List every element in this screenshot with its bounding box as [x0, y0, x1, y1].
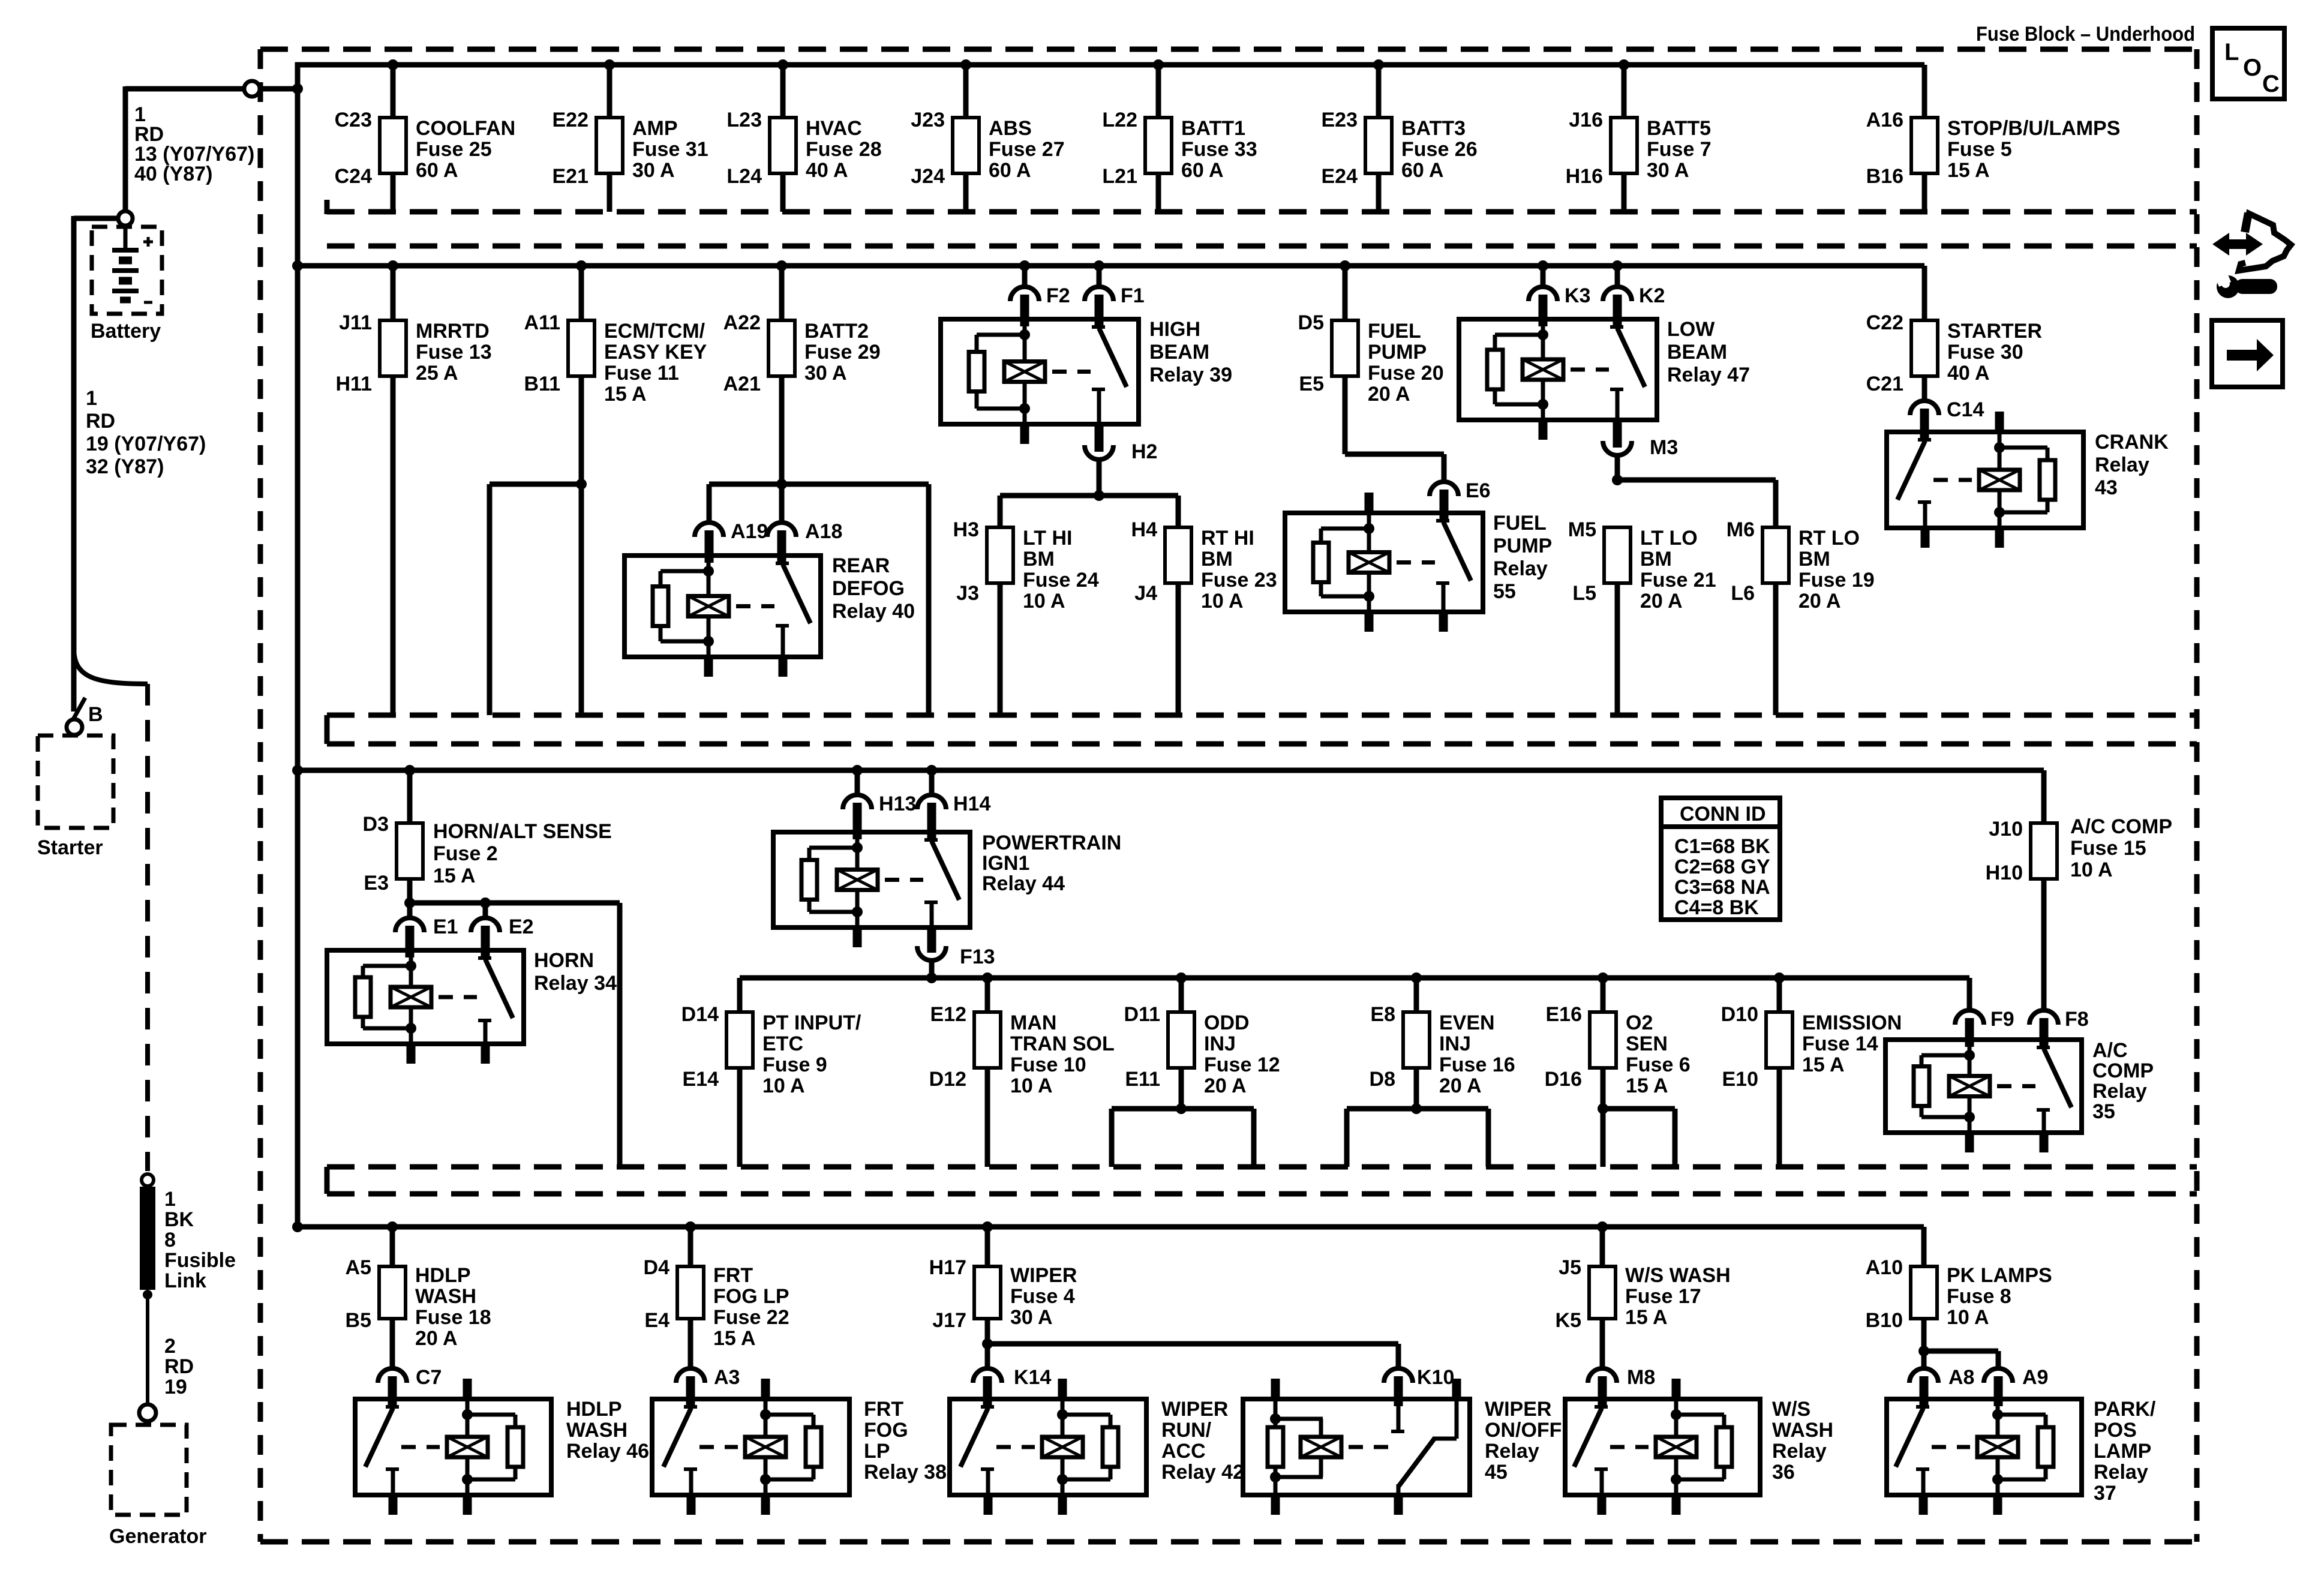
svg-text:H10: H10 [1986, 861, 2023, 884]
svg-text:L24: L24 [726, 165, 762, 188]
relay coil top stub [1271, 1379, 1280, 1401]
svg-text:B5: B5 [346, 1309, 371, 1332]
svg-text:COMP: COMP [2092, 1059, 2154, 1082]
svg-text:F9: F9 [1990, 1008, 2014, 1031]
svg-text:C1=68 BK: C1=68 BK [1674, 835, 1770, 858]
relay coil resistor [1268, 1427, 1283, 1467]
relay coil resistor [508, 1427, 523, 1467]
relay FRT FOG LP Relay 38 [652, 1399, 849, 1495]
svg-text:Fuse 20: Fuse 20 [1368, 362, 1444, 385]
relay bottom pin stubs [1995, 528, 2004, 548]
svg-text:Fuse 33: Fuse 33 [1181, 138, 1257, 161]
wire bus 3b (IGN1 feed) [740, 975, 1969, 981]
svg-text:RT HI: RT HI [1201, 527, 1254, 550]
wire curved branch to fusible link [74, 648, 148, 684]
relay switch [1097, 319, 1101, 327]
coil-to-switch dashed link [1933, 478, 1972, 482]
node junction below fusible link [143, 1290, 152, 1299]
coil wiring [1367, 513, 1371, 553]
svg-text:L: L [2224, 39, 2239, 65]
svg-text:A5: A5 [346, 1256, 371, 1279]
svg-text:2: 2 [164, 1335, 176, 1358]
svg-text:10 A: 10 A [2070, 858, 2113, 881]
wire bus2 to fuse FUEL PUMP [1343, 266, 1348, 320]
junction bus2 / F2 [1019, 260, 1030, 271]
svg-text:L5: L5 [1572, 582, 1596, 605]
fuse FUEL PUMP Fuse 20 [1332, 320, 1358, 376]
junction bus3b / F13 [926, 972, 937, 983]
junction bus3 / main feed [292, 765, 303, 776]
svg-text:20 A: 20 A [1798, 590, 1841, 613]
svg-text:Fuse 28: Fuse 28 [806, 138, 882, 161]
svg-text:E22: E22 [553, 109, 589, 131]
fuse EMISSION Fuse 14 [1766, 1012, 1792, 1068]
connector bump A19 [695, 523, 723, 537]
relay coil resistor [1487, 350, 1503, 389]
relay coil (crossed box) [1523, 359, 1563, 380]
relay coil top stub [1058, 1379, 1067, 1401]
coil-to-switch dashed link [1997, 1084, 2035, 1088]
svg-text:BM: BM [1023, 548, 1055, 571]
svg-text:HDLP: HDLP [415, 1264, 471, 1287]
svg-text:25 A: 25 A [416, 362, 458, 385]
svg-text:30 A: 30 A [804, 362, 847, 385]
svg-text:40 (Y87): 40 (Y87) [134, 163, 212, 185]
wire PK to A8 [1921, 1351, 1927, 1368]
section 1/2 boundary left bracket [325, 200, 330, 214]
coil wiring [409, 950, 413, 987]
fuse LT LO Fuse 21 [1604, 527, 1631, 583]
svg-text:Fuse 5: Fuse 5 [1947, 138, 2012, 161]
junction ECM output branch [576, 479, 587, 490]
fuse ABS Fuse 27 [953, 118, 979, 173]
svg-text:Relay 40: Relay 40 [832, 600, 915, 623]
relay switch [1921, 1399, 1926, 1407]
coil-to-switch dashed link [1571, 368, 1609, 372]
wire bus1 to fuse AMP [607, 65, 612, 118]
fuse LT HI Fuse 24 [987, 527, 1013, 583]
coil-to-switch dashed link [699, 1445, 738, 1449]
svg-text:HVAC: HVAC [806, 117, 862, 140]
wire bus1 to fuse ABS [963, 65, 969, 118]
junction bus2 / main feed [292, 260, 303, 271]
svg-text:EVEN: EVEN [1439, 1011, 1495, 1034]
svg-text:K5: K5 [1556, 1309, 1581, 1332]
fuse AMP Fuse 31 [596, 118, 623, 173]
wire bus2 to fuse ECM/TCM/ EASY KEY [579, 266, 584, 320]
junction bus1 / COOLFAN [388, 59, 398, 70]
svg-text:REAR: REAR [832, 554, 890, 577]
coil-to-switch dashed link [1610, 1445, 1649, 1449]
connector bump F8 [2029, 1010, 2058, 1025]
svg-text:FOG: FOG [864, 1419, 908, 1442]
svg-text:19: 19 [164, 1376, 187, 1398]
fuse A/C COMP Fuse 15 [2031, 823, 2057, 879]
starter B terminal [67, 719, 82, 735]
junction WIPER output [982, 1338, 993, 1349]
wire HORN branch horizontal [410, 900, 620, 906]
svg-text:O: O [2243, 55, 2262, 81]
wire bus1 to fuse BATT5 [1622, 65, 1627, 118]
svg-text:Relay 46: Relay 46 [566, 1440, 649, 1463]
svg-text:15 A: 15 A [604, 383, 647, 406]
wire ECM branch to harness exit [490, 482, 581, 487]
svg-text:IGN1: IGN1 [982, 852, 1029, 875]
svg-text:A8: A8 [1948, 1366, 1974, 1389]
wire bus4 to fuse FRT FOG LP [688, 1227, 693, 1266]
connector bump H2 [1095, 422, 1104, 452]
junction bus3 / H14 [926, 765, 937, 776]
svg-text:Relay: Relay [2094, 1461, 2148, 1484]
svg-text:Relay: Relay [1485, 1440, 1539, 1463]
svg-text:PUMP: PUMP [1493, 535, 1552, 557]
wire M3 branch horizontal [1617, 478, 1776, 483]
svg-text:BATT2: BATT2 [804, 320, 869, 343]
icon wrench [2217, 275, 2239, 298]
icon double arrow [2212, 233, 2263, 256]
svg-text:10 A: 10 A [762, 1074, 805, 1097]
svg-text:D14: D14 [681, 1003, 719, 1026]
wire to A18 [779, 484, 785, 523]
relay output top stub [1452, 1379, 1461, 1401]
fuse MAN TRAN SOL Fuse 10 [974, 1012, 1001, 1068]
fuse EVEN INJ Fuse 16 [1403, 1012, 1430, 1068]
relay coil (crossed box) [837, 870, 878, 890]
connector bump M8 [1588, 1368, 1617, 1383]
svg-text:BM: BM [1201, 548, 1233, 571]
svg-text:Relay 39: Relay 39 [1149, 364, 1232, 386]
fuse WIPER [974, 1266, 1001, 1319]
fuse RT LO Fuse 19 [1762, 527, 1789, 583]
section 3/4 boundary left bracket [325, 1167, 330, 1194]
wire M3 to low beam fuses [1615, 455, 1620, 480]
svg-text:D5: D5 [1298, 311, 1324, 334]
junction bus2 / K2 [1612, 260, 1623, 271]
svg-text:60 A: 60 A [989, 159, 1031, 182]
svg-text:A10: A10 [1866, 1256, 1903, 1279]
svg-text:ON/OFF: ON/OFF [1485, 1419, 1562, 1442]
svg-text:SEN: SEN [1626, 1032, 1668, 1055]
wire HDLP WASH fuse output to C7 [390, 1319, 395, 1368]
relay bottom pin stubs [1993, 1495, 2002, 1515]
svg-text:Battery: Battery [91, 320, 161, 343]
svg-text:RD: RD [164, 1355, 194, 1378]
relay switch [781, 556, 785, 563]
svg-text:O2: O2 [1626, 1011, 1653, 1034]
svg-text:RUN/: RUN/ [1161, 1419, 1212, 1442]
svg-text:20 A: 20 A [1439, 1074, 1482, 1097]
junction bus1 / BATT5 [1619, 59, 1629, 70]
svg-text:B16: B16 [1866, 165, 1903, 188]
relay CRANK Relay 43 [1887, 432, 2083, 528]
svg-text:K2: K2 [1639, 284, 1665, 307]
relay coil resistor [1313, 543, 1329, 583]
wire PT INPUT fuse output [737, 1068, 743, 1167]
svg-text:A18: A18 [805, 520, 842, 543]
relay coil (crossed box) [1004, 362, 1045, 382]
svg-text:M3: M3 [1650, 436, 1678, 459]
svg-text:CONN ID: CONN ID [1680, 803, 1766, 825]
connector bump A3 [676, 1368, 705, 1383]
relay REAR DEFOG Relay 40 [624, 556, 821, 657]
svg-text:35: 35 [2092, 1100, 2115, 1123]
relay coil (crossed box) [1949, 1076, 1990, 1097]
svg-text:Fuse 22: Fuse 22 [713, 1306, 789, 1329]
svg-text:Relay 38: Relay 38 [864, 1461, 947, 1484]
wire H2 to beam fuses [1097, 460, 1102, 496]
svg-text:STARTER: STARTER [1947, 320, 2042, 343]
relay coil (crossed box) [1977, 1437, 2018, 1457]
svg-text:L23: L23 [726, 109, 762, 131]
wire bus1 drop to STOP/B/U/LAMPS fuse [1922, 65, 1927, 118]
svg-text:15 A: 15 A [1626, 1074, 1668, 1097]
fuse COOLFAN Fuse 25 [380, 118, 406, 173]
coil-to-switch dashed link [736, 604, 774, 608]
svg-text:ETC: ETC [762, 1032, 803, 1055]
svg-text:Fuse 26: Fuse 26 [1401, 138, 1478, 161]
svg-text:B11: B11 [524, 373, 561, 395]
relay bottom pin stubs [1965, 1133, 1974, 1152]
svg-text:BATT5: BATT5 [1647, 117, 1711, 140]
svg-text:D8: D8 [1370, 1068, 1395, 1091]
wire BATT2 branch right exit [926, 484, 932, 715]
svg-text:Relay 44: Relay 44 [982, 872, 1065, 895]
svg-text:C3=68 NA: C3=68 NA [1674, 876, 1770, 899]
relay coil (crossed box) [688, 596, 729, 617]
svg-text:HDLP: HDLP [566, 1398, 622, 1421]
relay coil resistor [653, 587, 668, 626]
relay coil resistor [806, 1427, 821, 1467]
svg-text:20 A: 20 A [1368, 383, 1410, 406]
wire fuse BATT2 output [779, 376, 785, 484]
svg-text:PARK/: PARK/ [2094, 1398, 2156, 1421]
wire bus2 to K3 [1541, 266, 1546, 287]
svg-text:H16: H16 [1566, 165, 1603, 188]
svg-text:Fuse 6: Fuse 6 [1626, 1053, 1691, 1076]
relay bottom pin stubs [1271, 1495, 1280, 1515]
coil-to-switch dashed link [885, 878, 923, 882]
svg-text:H11: H11 [336, 373, 373, 395]
svg-text:19 (Y07/Y67): 19 (Y07/Y67) [86, 433, 206, 455]
wire FUEL PUMP fuse to E6 [1343, 376, 1348, 454]
coil wiring [1541, 319, 1545, 359]
junction bus1 / HVAC [777, 59, 788, 70]
svg-text:AMP: AMP [632, 117, 678, 140]
relay coil (crossed box) [1301, 1437, 1341, 1457]
svg-text:WIPER: WIPER [1485, 1398, 1551, 1421]
svg-text:20 A: 20 A [415, 1327, 458, 1350]
junction EVEN INJ split [1411, 1103, 1422, 1114]
battery minus sign [144, 301, 152, 304]
svg-text:J11: J11 [339, 311, 372, 334]
wire main vertical feed bus [295, 62, 301, 1227]
junction bus2 / MRRTD [388, 260, 398, 271]
svg-text:Fuse 8: Fuse 8 [1947, 1285, 2011, 1308]
connector bump F13 [927, 925, 936, 953]
svg-text:B10: B10 [1866, 1309, 1903, 1332]
svg-text:C: C [2262, 71, 2280, 97]
wire fuse RT LO output [1773, 583, 1779, 715]
junction bus3 / HORN fuse [404, 765, 415, 776]
wire bus2 to F1 [1097, 266, 1102, 287]
svg-text:E16: E16 [1546, 1003, 1583, 1026]
wire fuse LT HI output [998, 583, 1003, 715]
coil wiring [1968, 1040, 1972, 1076]
svg-text:J23: J23 [911, 109, 945, 131]
relay coil (crossed box) [1656, 1437, 1697, 1457]
svg-text:32 (Y87): 32 (Y87) [86, 455, 164, 478]
wire bus3 to H14 [929, 770, 935, 795]
wire dashed to fusible link [145, 684, 150, 1171]
CONN ID table box [1661, 798, 1780, 920]
svg-text:C24: C24 [335, 165, 372, 188]
coil-to-switch dashed link [1052, 370, 1091, 374]
wire battery positive vertical [123, 86, 128, 211]
svg-text:HIGH: HIGH [1149, 318, 1200, 341]
svg-text:WIPER: WIPER [1010, 1264, 1077, 1287]
svg-text:Fuse 13: Fuse 13 [416, 341, 492, 364]
relay coil (crossed box) [1349, 553, 1389, 573]
battery plus sign [143, 241, 153, 244]
svg-text:K14: K14 [1014, 1366, 1051, 1389]
svg-text:LT HI: LT HI [1023, 527, 1072, 550]
svg-text:Relay: Relay [2092, 1080, 2147, 1103]
icon arrow box [2212, 320, 2283, 387]
wire bus4 to fuse WIPER [985, 1227, 990, 1266]
connector bump C14 [1910, 401, 1939, 415]
wire bus3 to HORN fuse [407, 770, 413, 823]
svg-text:J4: J4 [1134, 582, 1157, 605]
svg-text:A22: A22 [723, 311, 761, 334]
relay HORN Relay 34 [327, 950, 524, 1044]
svg-text:Starter: Starter [37, 836, 103, 859]
svg-text:F13: F13 [960, 945, 995, 968]
svg-text:36: 36 [1772, 1461, 1795, 1484]
svg-text:Generator: Generator [109, 1525, 207, 1548]
wire to A19 [707, 484, 712, 523]
section 3/4 dashed boundary lower [327, 1191, 2197, 1197]
svg-text:WIPER: WIPER [1161, 1398, 1228, 1421]
svg-text:Fuse 23: Fuse 23 [1201, 569, 1277, 592]
wire battery positive feed horizontal [125, 86, 244, 92]
relay coil resistor [355, 977, 371, 1017]
svg-text:C22: C22 [1866, 311, 1903, 334]
svg-text:K10: K10 [1417, 1366, 1454, 1389]
coil-to-switch dashed link [1397, 560, 1435, 565]
connector bump A8 [1909, 1368, 1938, 1383]
wire EMISSION fuse output [1777, 1068, 1782, 1167]
wire EVEN INJ fuse output [1414, 1068, 1419, 1109]
svg-text:43: 43 [2095, 476, 2118, 499]
junction H2 branch [1094, 490, 1104, 501]
svg-text:A/C: A/C [2092, 1039, 2128, 1062]
svg-text:PT INPUT/: PT INPUT/ [762, 1011, 861, 1034]
junction bus4 / W/S WASH [1597, 1221, 1608, 1232]
coil-to-switch dashed link [439, 995, 477, 999]
svg-text:A19: A19 [731, 520, 768, 543]
svg-text:POWERTRAIN: POWERTRAIN [982, 831, 1121, 854]
junction bus3b / MAN TRAN SOL [982, 972, 993, 983]
coil wiring [1998, 432, 2002, 470]
wire fusible link to generator [146, 1295, 149, 1404]
svg-text:J17: J17 [932, 1309, 966, 1332]
relay switch [1600, 1399, 1604, 1407]
junction ODD INJ split [1176, 1103, 1187, 1114]
svg-text:A16: A16 [1866, 109, 1903, 131]
svg-text:20 A: 20 A [1640, 590, 1683, 613]
junction bus3b / O2 SEN [1598, 972, 1608, 983]
fuse O2 SEN Fuse 6 [1590, 1012, 1616, 1068]
svg-text:J16: J16 [1569, 109, 1603, 131]
wire to E2 [483, 903, 488, 918]
svg-text:M5: M5 [1568, 518, 1596, 541]
coil wiring [1023, 319, 1027, 362]
svg-text:M8: M8 [1627, 1366, 1655, 1389]
wire bus2 drop to STARTER fuse [1922, 266, 1927, 320]
svg-text:F8: F8 [2065, 1008, 2089, 1031]
junction BATT2 output branch [776, 479, 787, 490]
relay bottom pin stubs [407, 1044, 416, 1064]
junction bus2 / BATT2 [776, 260, 787, 271]
svg-text:H14: H14 [953, 792, 990, 815]
wire bus3b left drop to PT INPUT fuse [737, 978, 743, 1012]
svg-text:15 A: 15 A [1947, 159, 1990, 182]
svg-text:C7: C7 [416, 1366, 442, 1389]
wire bus3b to fuse ODD INJ [1179, 978, 1184, 1012]
svg-text:ABS: ABS [989, 117, 1032, 140]
svg-text:BATT1: BATT1 [1181, 117, 1245, 140]
wire EVEN INJ split [1347, 1106, 1488, 1112]
svg-text:F1: F1 [1121, 284, 1145, 307]
relay bottom pin stubs [1672, 1495, 1681, 1515]
wire fuse BATT1 output [1156, 173, 1161, 212]
svg-text:ECM/TCM/: ECM/TCM/ [604, 320, 705, 343]
svg-text:Fuse 9: Fuse 9 [762, 1053, 827, 1076]
wire bus3b to fuse EVEN INJ [1414, 978, 1419, 1012]
svg-text:15 A: 15 A [1802, 1053, 1845, 1076]
svg-text:10 A: 10 A [1023, 590, 1065, 613]
svg-text:COOLFAN: COOLFAN [416, 117, 515, 140]
section 2/3 dashed boundary upper [327, 713, 2197, 718]
wire ODD INJ split [1112, 1106, 1254, 1112]
wire fuse LT LO output [1615, 583, 1620, 715]
svg-text:A9: A9 [2022, 1366, 2048, 1389]
relay POWERTRAIN IGN1 Relay 44 [773, 832, 970, 927]
svg-text:1: 1 [164, 1188, 176, 1211]
relay A/C COMP Relay 35 [1885, 1040, 2082, 1133]
junction bus2 / K3 [1538, 260, 1548, 271]
icon dog head [2239, 214, 2291, 271]
svg-text:LT LO: LT LO [1640, 527, 1698, 550]
svg-text:ACC: ACC [1161, 1440, 1206, 1463]
svg-text:15 A: 15 A [713, 1327, 756, 1350]
wire bus3 to H13 [855, 770, 860, 795]
svg-text:Fuse 14: Fuse 14 [1802, 1032, 1878, 1055]
relay switch [1442, 513, 1446, 521]
coil wiring [1274, 1399, 1278, 1427]
svg-text:10 A: 10 A [1010, 1074, 1053, 1097]
svg-text:PK LAMPS: PK LAMPS [1947, 1264, 2052, 1287]
relay HDLP WASH Relay 46 [355, 1399, 551, 1495]
svg-text:Fuse 10: Fuse 10 [1010, 1053, 1086, 1076]
svg-text:Fuse 16: Fuse 16 [1439, 1053, 1515, 1076]
relay WIPER ON/OFF Relay 45 [1243, 1399, 1470, 1495]
svg-text:20 A: 20 A [1204, 1074, 1247, 1097]
wire fuse STOP/B/U/LAMPS output [1922, 173, 1927, 212]
svg-text:60 A: 60 A [1401, 159, 1444, 182]
junction bus4 / WIPER [982, 1221, 993, 1232]
relay coil top stub [1995, 412, 2004, 434]
